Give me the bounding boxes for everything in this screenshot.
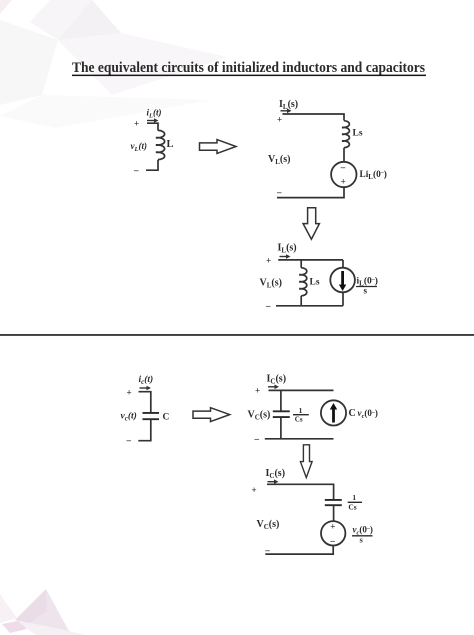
svg-text:1: 1 — [352, 493, 356, 502]
svg-text:VL(s): VL(s) — [260, 278, 282, 290]
left branch wire bottom — [300, 296, 302, 306]
block arrow right 1 — [200, 140, 237, 154]
current arrow — [281, 109, 292, 114]
left branch wire — [280, 390, 282, 410]
block arrow down 2 — [300, 445, 312, 478]
voltage source v_c(0-)/s — [321, 521, 345, 545]
svg-text:–: – — [276, 187, 282, 197]
svg-text:ic(t): ic(t) — [139, 374, 154, 386]
svg-text:+: + — [341, 176, 346, 186]
thick down arrow inside — [339, 271, 346, 291]
svg-text:vc(t): vc(t) — [121, 410, 137, 422]
svg-text:Ls: Ls — [310, 278, 320, 288]
current arrow — [140, 386, 152, 391]
svg-text:s: s — [364, 285, 368, 295]
inductor Ls coil — [301, 268, 307, 296]
svg-text:L: L — [167, 139, 174, 150]
wire top — [267, 484, 334, 499]
svg-text:–: – — [264, 545, 270, 555]
svg-text:–: – — [340, 162, 346, 172]
voltage source Li_L(0-) — [331, 162, 356, 187]
block arrow down 1 — [303, 208, 319, 239]
svg-text:IC(s): IC(s) — [266, 468, 286, 480]
svg-text:+: + — [255, 386, 260, 396]
current arrow — [280, 254, 291, 259]
wire top — [139, 392, 151, 413]
svg-text:+: + — [277, 115, 282, 125]
current arrow — [268, 479, 279, 484]
svg-text:+: + — [127, 388, 132, 398]
title underline — [72, 75, 426, 77]
wire to source — [343, 148, 345, 162]
block arrow right 2 — [193, 408, 230, 422]
svg-text:+: + — [266, 256, 271, 266]
svg-text:Cs: Cs — [295, 416, 303, 424]
current arrow — [147, 118, 159, 123]
svg-text:Cs: Cs — [348, 503, 356, 512]
wire top — [147, 123, 158, 130]
left branch wire bottom — [280, 418, 282, 439]
current source circle — [321, 400, 346, 425]
svg-text:+: + — [252, 485, 257, 495]
svg-text:VC(s): VC(s) — [248, 410, 271, 422]
inductor Ls coil — [344, 121, 349, 148]
wire top — [278, 259, 343, 261]
section divider — [0, 334, 474, 336]
wire top — [283, 114, 345, 121]
svg-text:+: + — [134, 119, 139, 129]
capacitor 1/Cs plates — [273, 410, 290, 412]
svg-text:IL(s): IL(s) — [279, 99, 298, 111]
svg-text:VL(s): VL(s) — [268, 154, 290, 166]
inductor L coil — [158, 130, 165, 159]
svg-text:IL(s): IL(s) — [278, 243, 297, 255]
wire bottom — [277, 187, 344, 197]
wire bottom — [265, 438, 334, 440]
svg-text:VC(s): VC(s) — [257, 519, 280, 531]
capacitor 1/Cs plates — [325, 499, 342, 501]
svg-text:–: – — [254, 434, 260, 444]
current source circle — [330, 268, 355, 293]
svg-text:The equivalent circuits of ini: The equivalent circuits of initialized i… — [72, 60, 425, 76]
svg-text:–: – — [133, 165, 139, 175]
svg-text:–: – — [329, 536, 335, 546]
svg-text:1: 1 — [299, 406, 303, 415]
wire bottom — [265, 546, 333, 555]
svg-text:Ls: Ls — [353, 129, 363, 139]
left branch wire — [300, 260, 302, 268]
svg-text:–: – — [126, 435, 132, 445]
svg-text:C: C — [163, 412, 170, 422]
thick up arrow inside — [330, 403, 337, 423]
wire bottom — [138, 420, 151, 441]
right branch wire bottom — [342, 292, 344, 305]
wire bottom — [146, 160, 158, 171]
svg-text:IC(s): IC(s) — [267, 374, 287, 386]
current arrow — [268, 385, 279, 390]
wire top — [269, 389, 334, 391]
wire bottom — [276, 305, 343, 307]
svg-text:+: + — [330, 522, 335, 532]
svg-text:–: – — [265, 301, 271, 311]
wire to source — [333, 506, 335, 522]
capacitor C plates — [143, 412, 160, 414]
right branch wire — [342, 260, 344, 268]
